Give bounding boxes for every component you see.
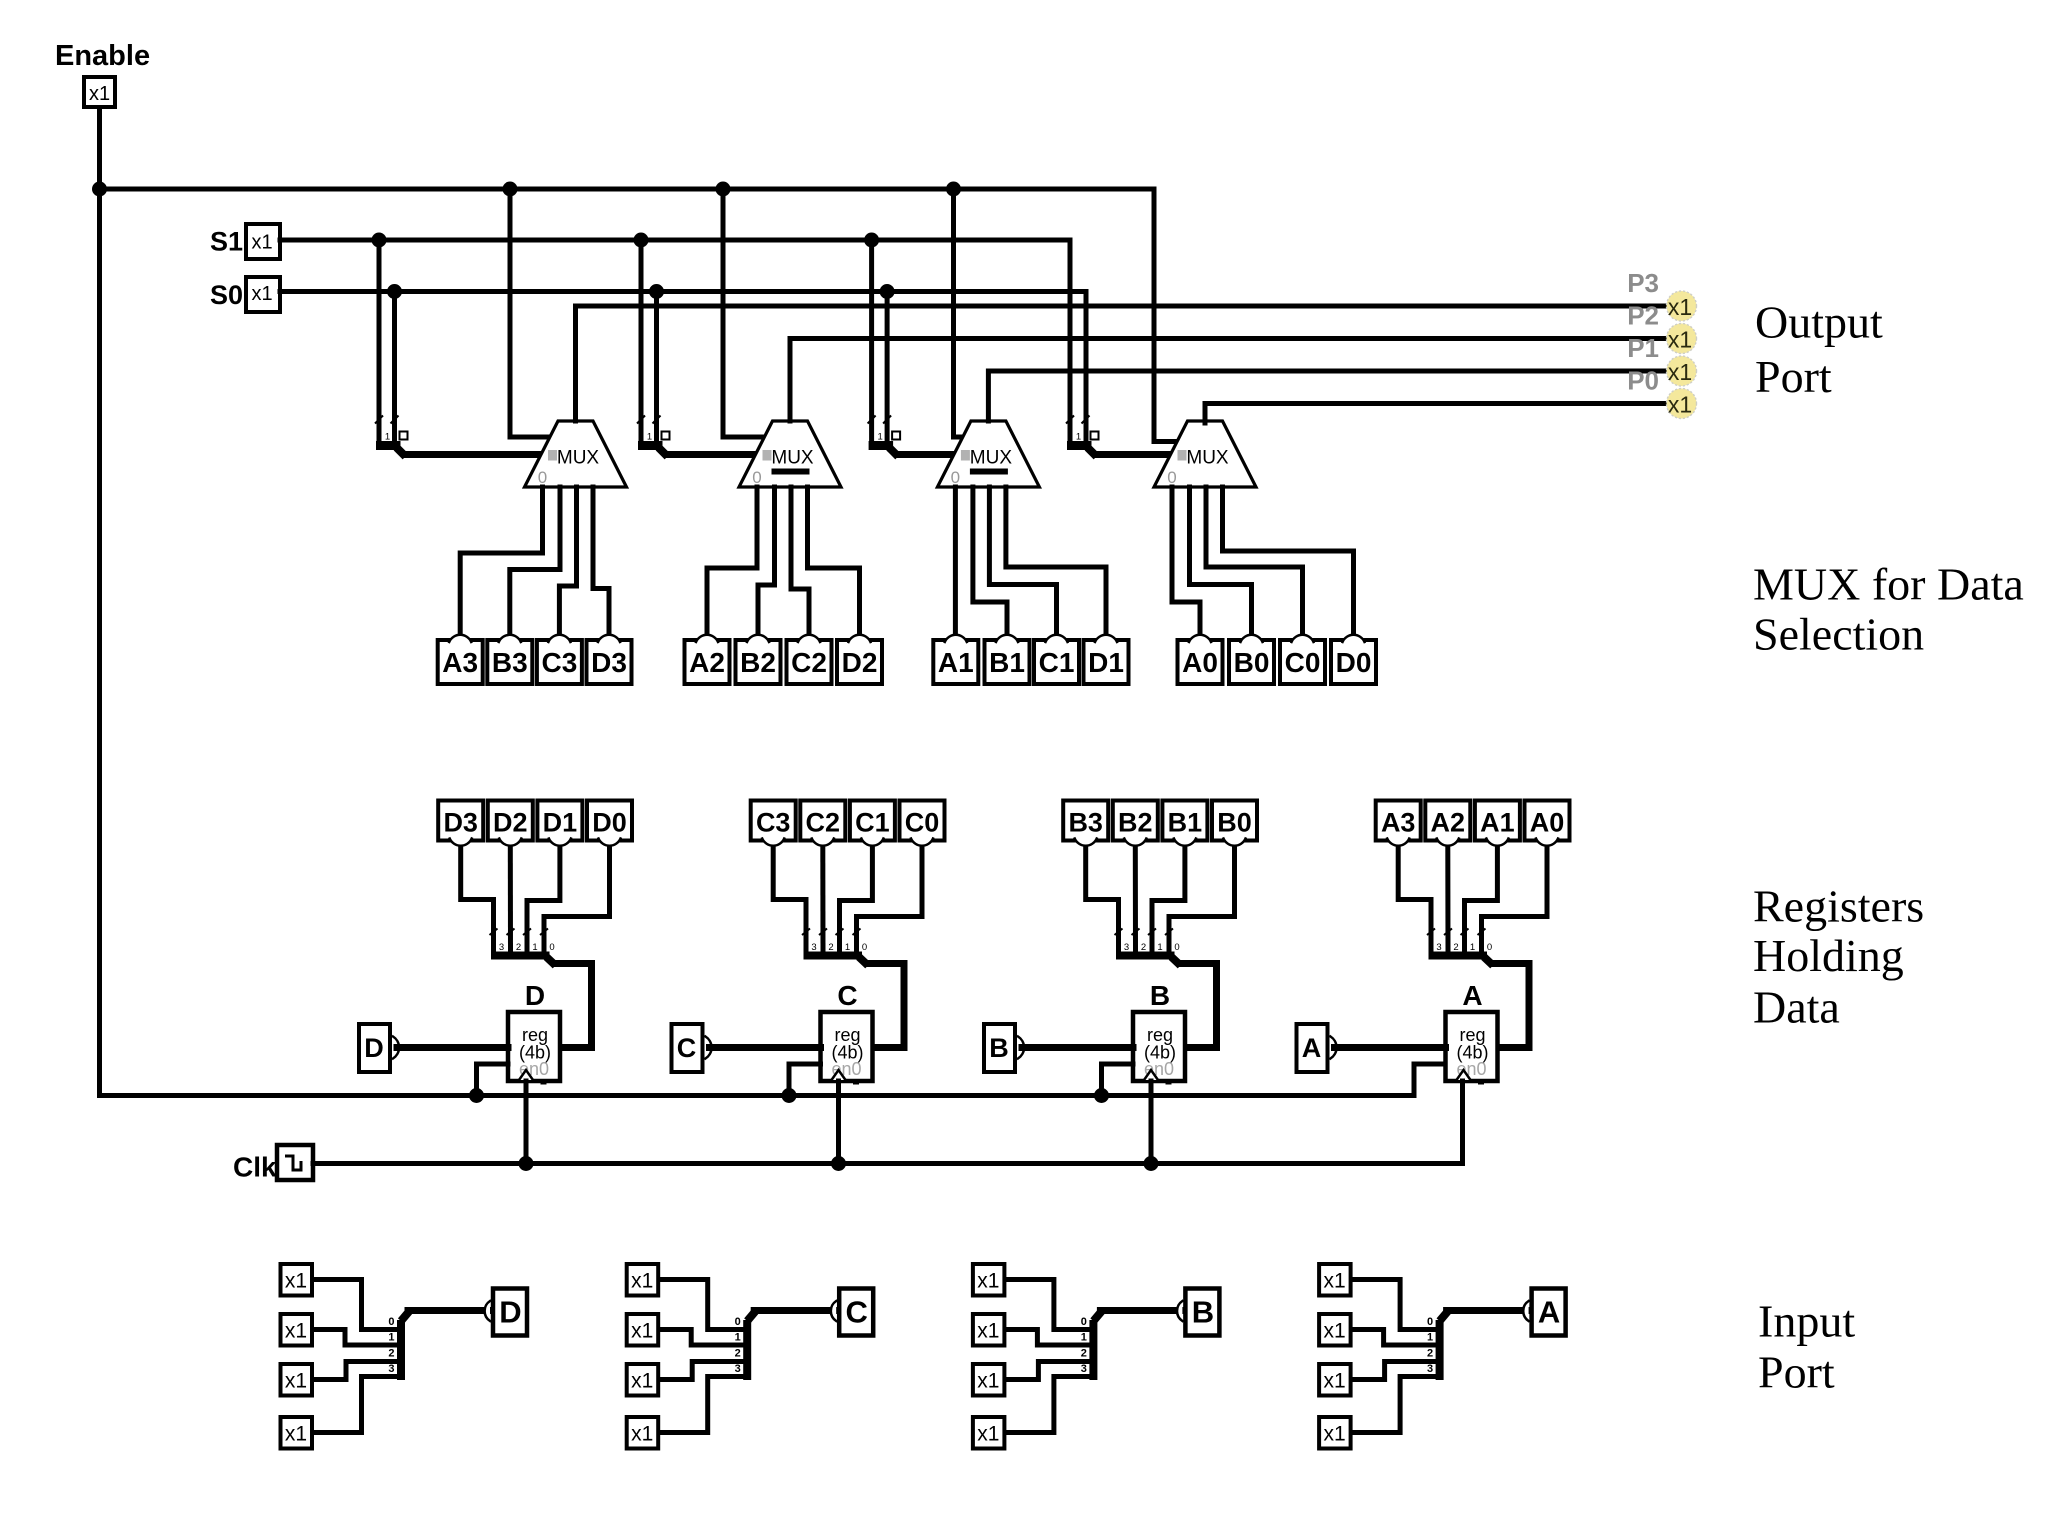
svg-text:x1: x1 [89, 83, 110, 105]
wire MUX U2 input 2 to tunnel C2 [791, 487, 809, 633]
svg-text:C2: C2 [791, 647, 827, 678]
clock pin Clk [277, 1145, 313, 1180]
combiner 4-bit input B [1081, 1312, 1102, 1381]
wire MUX U1 input 2 to tunnel C3 [559, 487, 576, 633]
svg-text:0: 0 [538, 468, 547, 487]
wire D3 to splitter [461, 847, 494, 951]
svg-text:0: 0 [1487, 942, 1492, 953]
svg-text:A: A [1538, 1295, 1560, 1330]
wire MUX U3 input 0 to tunnel A1 [953, 487, 958, 633]
svg-text:MUX: MUX [970, 448, 1013, 469]
junction Enable at left vertical [92, 182, 107, 197]
output port pin P0 (x1) [1667, 389, 1697, 419]
svg-text:D0: D0 [592, 808, 627, 838]
wire MUX U1 output to P3 [576, 306, 1667, 421]
svg-text:0: 0 [1167, 468, 1176, 487]
wire A bit2 to combiner [1352, 1362, 1435, 1380]
svg-text:x1: x1 [1324, 1370, 1346, 1393]
label MUX for Data Selection [1753, 559, 2024, 660]
svg-text:0: 0 [752, 468, 761, 487]
svg-text:A0: A0 [1530, 808, 1565, 838]
wire select bundle to MUX U3 [898, 451, 955, 458]
output tag C (to register) [831, 1289, 873, 1336]
svg-text:x1: x1 [631, 1320, 653, 1343]
svg-text:Port: Port [1755, 351, 1832, 402]
tunnel B2 (register B bit 2) [1113, 801, 1158, 846]
svg-text:x1: x1 [1324, 1270, 1346, 1293]
svg-text:B2: B2 [740, 647, 776, 678]
svg-text:A3: A3 [1381, 808, 1416, 838]
svg-text:A: A [1302, 1033, 1322, 1063]
svg-text:MUX: MUX [557, 448, 600, 469]
wire C bit1 to combiner [660, 1330, 743, 1346]
svg-text:2: 2 [1453, 942, 1458, 953]
wire MUX U3 input 2 to tunnel C1 [989, 487, 1056, 633]
svg-text:1: 1 [647, 432, 652, 443]
svg-text:A1: A1 [938, 647, 974, 678]
svg-text:B0: B0 [1234, 647, 1270, 678]
wire C bit3 to combiner [660, 1377, 743, 1433]
svg-text:x1: x1 [251, 283, 272, 305]
junction clock stub C [831, 1156, 846, 1171]
svg-text:3: 3 [1427, 1363, 1433, 1375]
svg-text:1: 1 [1427, 1332, 1433, 1344]
input pin S0 (x1 box) [246, 277, 280, 312]
svg-text:0: 0 [388, 1316, 394, 1328]
input pin x1 (C bit 2) [627, 1364, 659, 1396]
svg-text:D: D [364, 1033, 384, 1063]
wire C bit0 to combiner [660, 1280, 743, 1330]
splitter 4-bit register B [1115, 929, 1181, 966]
svg-text:C: C [846, 1295, 868, 1330]
label Input Port [1758, 1296, 1855, 1398]
svg-text:x1: x1 [631, 1370, 653, 1393]
wire MUX U4 input 2 to tunnel C0 [1206, 487, 1303, 633]
wire B bit2 to combiner [1006, 1362, 1089, 1380]
svg-text:D3: D3 [591, 647, 627, 678]
svg-text:S0: S0 [210, 280, 243, 310]
junction clock stub D [519, 1156, 534, 1171]
wire MUX U3 input 3 to tunnel D1 [1006, 487, 1106, 633]
wire MUX U2 output to P2 [790, 339, 1666, 422]
wire D bit3 to combiner [314, 1377, 397, 1433]
svg-text:MUX for Data: MUX for Data [1753, 559, 2024, 610]
input pin Clk label [233, 1152, 277, 1183]
wire select bundle to MUX U2 [668, 451, 757, 458]
svg-text:Registers: Registers [1753, 881, 1924, 932]
wire combiner to tag D [408, 1307, 488, 1314]
svg-text:B: B [1192, 1295, 1214, 1330]
input pin x1 (C bit 3) [627, 1417, 659, 1449]
tunnel D1 (register D bit 1) [537, 801, 582, 846]
tunnel C0 (MUX input) [1280, 635, 1325, 684]
tunnel A1 (MUX input) [933, 635, 978, 684]
output tag B (to register) [1177, 1289, 1219, 1336]
splitter select 2-bit U3 [868, 416, 901, 457]
tunnel D3 (register D bit 3) [438, 801, 483, 846]
wire S0 leg to splitter U3 [885, 292, 890, 444]
svg-text:D3: D3 [443, 808, 478, 838]
svg-text:Clk: Clk [233, 1152, 277, 1183]
combiner 4-bit input D [388, 1312, 409, 1381]
output port pin P1 (x1) [1667, 356, 1697, 386]
label Registers Holding Data [1753, 881, 1924, 1033]
tunnel D1 (MUX input) [1084, 635, 1129, 684]
svg-text:C1: C1 [1039, 647, 1075, 678]
svg-text:1: 1 [532, 942, 537, 953]
svg-text:3: 3 [735, 1363, 741, 1375]
wire bundle splitter to reg D [555, 964, 592, 1048]
wire MUX U3 output to P1 [988, 371, 1666, 421]
svg-text:3: 3 [811, 942, 816, 953]
svg-text:B1: B1 [989, 647, 1025, 678]
svg-text:1: 1 [1470, 942, 1475, 953]
input pin x1 (B bit 1) [973, 1314, 1005, 1346]
wire Enable pin to bus [97, 109, 102, 186]
wire S0 leg to splitter U1 [392, 292, 397, 444]
tunnel A3 (register A bit 3) [1376, 801, 1421, 846]
svg-text:x1: x1 [977, 1270, 999, 1293]
junction Enable drop U2 [716, 182, 731, 197]
svg-text:D1: D1 [1088, 647, 1124, 678]
wire clock stub reg C [836, 1081, 841, 1164]
wire S0 line [280, 292, 1086, 444]
svg-text:2: 2 [1081, 1347, 1087, 1359]
wire tag A to reg [1335, 1044, 1446, 1051]
svg-text:P2: P2 [1627, 301, 1659, 331]
wire select bundle to MUX U1 [406, 451, 543, 458]
input tag D (register data in) [359, 1024, 399, 1072]
wire A bit0 to combiner [1352, 1280, 1435, 1330]
input pin x1 (D bit 3) [281, 1417, 313, 1449]
svg-text:C: C [837, 980, 857, 1011]
tunnel D2 (MUX input) [837, 635, 882, 684]
label register C [837, 980, 857, 1011]
combiner 4-bit input C [735, 1312, 756, 1381]
tunnel A3 (MUX input) [438, 635, 483, 684]
wire Enable drop to MUX U3 [954, 189, 964, 437]
svg-text:D2: D2 [493, 808, 528, 838]
svg-text:2: 2 [1141, 942, 1146, 953]
svg-text:3: 3 [1081, 1363, 1087, 1375]
wire D bit2 to combiner [314, 1362, 397, 1380]
wire MUX U1 input 1 to tunnel B3 [510, 487, 560, 633]
wire Enable drop to MUX U2 [723, 189, 765, 437]
input pin Enable (x1 box) [84, 77, 115, 107]
wire clock stub reg D [524, 1081, 529, 1164]
svg-text:Holding: Holding [1753, 930, 1904, 981]
wire D bit0 to combiner [314, 1280, 397, 1330]
wire tag D to reg [397, 1044, 508, 1051]
svg-text:A2: A2 [689, 647, 725, 678]
svg-text:C1: C1 [855, 808, 890, 838]
register B (reg 4b) [1133, 1012, 1185, 1085]
svg-text:2: 2 [828, 942, 833, 953]
register D (reg 4b) [508, 1012, 560, 1085]
junction clock stub B [1144, 1156, 1159, 1171]
svg-text:0: 0 [1174, 942, 1179, 953]
output tag A (to register) [1523, 1289, 1565, 1336]
svg-text:D0: D0 [1336, 647, 1372, 678]
junction Enable drop U1 [503, 182, 518, 197]
label register D [525, 980, 545, 1011]
svg-text:x1: x1 [1324, 1320, 1346, 1343]
tunnel A0 (register A bit 0) [1525, 801, 1570, 846]
wire MUX U2 input 1 to tunnel B2 [758, 487, 775, 633]
label Output Port [1755, 297, 1883, 403]
splitter 4-bit register C [802, 929, 868, 966]
register A (reg 4b) [1446, 1012, 1498, 1085]
svg-text:x1: x1 [285, 1320, 307, 1343]
svg-text:x1: x1 [1668, 392, 1692, 418]
input tag A (register data in) [1297, 1024, 1337, 1072]
multiplexer MUX U1 [525, 421, 627, 487]
svg-text:C0: C0 [1285, 647, 1321, 678]
svg-text:D1: D1 [543, 808, 578, 838]
label register A [1462, 980, 1482, 1011]
input pin x1 (D bit 1) [281, 1314, 313, 1346]
wire S1 line [280, 240, 1070, 443]
svg-text:1: 1 [877, 432, 882, 443]
output port pin P3 (x1) [1667, 291, 1697, 321]
svg-text:x1: x1 [977, 1423, 999, 1446]
wire B3 to splitter [1086, 847, 1119, 951]
wire C bit2 to combiner [660, 1362, 743, 1380]
tunnel B3 (register B bit 3) [1063, 801, 1108, 846]
svg-text:x1: x1 [631, 1423, 653, 1446]
wire combiner to tag A [1447, 1307, 1527, 1314]
svg-text:x1: x1 [1324, 1423, 1346, 1446]
wire MUX U3 input 1 to tunnel B1 [973, 487, 1007, 633]
svg-text:0: 0 [951, 468, 960, 487]
multiplexer MUX U4 [1154, 421, 1256, 487]
input pin x1 (A bit 2) [1319, 1364, 1351, 1396]
wire tag C to reg [710, 1044, 821, 1051]
svg-text:P1: P1 [1627, 333, 1659, 363]
input tag B (register data in) [984, 1024, 1024, 1072]
tunnel C2 (register C bit 2) [800, 801, 845, 846]
svg-text:P0: P0 [1627, 366, 1659, 396]
wire combiner to tag C [754, 1307, 834, 1314]
tunnel C1 (MUX input) [1034, 635, 1079, 684]
junction S0 leg U2 [649, 284, 664, 299]
label register B [1150, 980, 1170, 1011]
output label P2 [1627, 301, 1659, 331]
wire select bundle to MUX U4 [1097, 451, 1172, 458]
wire C1 to splitter [840, 847, 873, 951]
svg-text:Port: Port [1758, 1347, 1835, 1398]
svg-text:B2: B2 [1118, 808, 1153, 838]
tunnel C3 (register C bit 3) [751, 801, 796, 846]
wire MUX U4 input 0 to tunnel A0 [1172, 487, 1200, 633]
wire bundle splitter to reg A [1493, 964, 1530, 1048]
svg-text:1: 1 [1157, 942, 1162, 953]
svg-text:x1: x1 [285, 1370, 307, 1393]
wire B bit0 to combiner [1006, 1280, 1089, 1330]
input tag C (register data in) [672, 1024, 712, 1072]
wire C3 to splitter [773, 847, 806, 951]
wire MUX U4 output to P0 [1205, 404, 1666, 424]
wire S1 leg to splitter U1 [377, 240, 382, 443]
svg-text:1: 1 [845, 942, 850, 953]
junction S0 leg U3 [880, 284, 895, 299]
wire A3 to splitter [1398, 847, 1431, 951]
tunnel D0 (register D bit 0) [587, 801, 632, 846]
multiplexer MUX U3 [937, 421, 1039, 487]
wire combiner to tag B [1100, 1307, 1180, 1314]
svg-text:MUX: MUX [1186, 448, 1229, 469]
tunnel B1 (register B bit 1) [1162, 801, 1207, 846]
input pin x1 (D bit 0) [281, 1264, 313, 1296]
junction S1 leg U1 [372, 233, 387, 248]
wire tag B to reg [1022, 1044, 1133, 1051]
wire MUX U1 input 3 to tunnel D3 [593, 487, 609, 633]
wire A2 to splitter [1445, 847, 1450, 951]
svg-text:1: 1 [1081, 1332, 1087, 1344]
input pin x1 (A bit 3) [1319, 1417, 1351, 1449]
wire MUX U2 input 0 to tunnel A2 [707, 487, 757, 633]
svg-text:1: 1 [735, 1332, 741, 1344]
svg-text:C0: C0 [905, 808, 940, 838]
wire enable stub reg C [789, 1064, 821, 1096]
wire B bit1 to combiner [1006, 1330, 1089, 1346]
svg-text:0: 0 [735, 1316, 741, 1328]
svg-text:3: 3 [1436, 942, 1441, 953]
tunnel B0 (MUX input) [1229, 635, 1274, 684]
svg-text:D: D [499, 1295, 521, 1330]
wire C2 to splitter [820, 847, 825, 951]
junction S0 leg U1 [387, 284, 402, 299]
wire Enable drop to MUX U1 [510, 189, 550, 437]
wire enable stub reg B [1102, 1064, 1134, 1096]
tunnel D2 (register D bit 2) [488, 801, 533, 846]
svg-text:Selection: Selection [1753, 609, 1924, 660]
svg-text:C3: C3 [542, 647, 578, 678]
svg-text:0: 0 [1081, 1316, 1087, 1328]
input pin x1 (A bit 1) [1319, 1314, 1351, 1346]
wire MUX U1 input 0 to tunnel A3 [460, 487, 542, 633]
svg-text:0: 0 [862, 942, 867, 953]
tunnel A2 (MUX input) [685, 635, 730, 684]
tunnel C0 (register C bit 0) [900, 801, 945, 846]
svg-text:x1: x1 [1668, 359, 1692, 385]
output label P1 [1627, 333, 1659, 363]
wire A1 to splitter [1465, 847, 1498, 951]
wire B1 to splitter [1152, 847, 1185, 951]
wire B0 to splitter [1169, 847, 1235, 951]
wire bundle splitter to reg B [1180, 964, 1217, 1048]
svg-text:1: 1 [385, 432, 390, 443]
svg-text:B: B [989, 1033, 1009, 1063]
tunnel C2 (MUX input) [787, 635, 832, 684]
wire B bit3 to combiner [1006, 1377, 1089, 1433]
svg-text:x1: x1 [631, 1270, 653, 1293]
wire MUX U4 input 3 to tunnel D0 [1223, 487, 1354, 633]
svg-text:3: 3 [388, 1363, 394, 1375]
svg-text:P3: P3 [1627, 268, 1659, 298]
tunnel B3 (MUX input) [487, 635, 532, 684]
wire MUX U2 input 3 to tunnel D2 [808, 487, 860, 633]
wire S1 leg to splitter U2 [639, 240, 644, 443]
svg-text:2: 2 [516, 942, 521, 953]
multiplexer MUX U2 [739, 421, 841, 487]
svg-text:x1: x1 [977, 1320, 999, 1343]
tunnel C1 (register C bit 1) [850, 801, 895, 846]
svg-text:B3: B3 [1068, 808, 1103, 838]
tunnel D0 (MUX input) [1331, 635, 1376, 684]
wire D2 to splitter [508, 847, 513, 951]
tunnel B2 (MUX input) [736, 635, 781, 684]
svg-text:3: 3 [1124, 942, 1129, 953]
svg-text:0: 0 [1427, 1316, 1433, 1328]
splitter select 2-bit U2 [637, 416, 670, 457]
svg-text:2: 2 [388, 1347, 394, 1359]
output label P3 [1627, 268, 1659, 298]
wire enable stub reg D [477, 1064, 509, 1096]
svg-text:x1: x1 [251, 232, 272, 254]
svg-text:A1: A1 [1480, 808, 1515, 838]
junction S1 leg U2 [634, 233, 649, 248]
splitter select 2-bit U1 [375, 416, 408, 457]
svg-text:2: 2 [1427, 1347, 1433, 1359]
svg-text:Input: Input [1758, 1296, 1855, 1347]
splitter 4-bit register D [490, 929, 556, 966]
svg-text:C: C [677, 1033, 697, 1063]
wire A bit1 to combiner [1352, 1330, 1435, 1346]
svg-text:MUX: MUX [771, 448, 814, 469]
wire clock stub reg A [1460, 1081, 1465, 1164]
tunnel B0 (register B bit 0) [1212, 801, 1257, 846]
wire MUX U4 input 1 to tunnel B0 [1190, 487, 1252, 633]
svg-text:B0: B0 [1217, 808, 1252, 838]
input pin x1 (C bit 1) [627, 1314, 659, 1346]
input pin S1 (x1 box) [246, 224, 280, 259]
wire Enable left vertical [100, 189, 1415, 1096]
junction enable stub C [782, 1088, 797, 1103]
svg-text:3: 3 [499, 942, 504, 953]
svg-text:A: A [1462, 980, 1482, 1011]
junction enable stub B [1094, 1088, 1109, 1103]
svg-text:2: 2 [735, 1347, 741, 1359]
svg-text:B3: B3 [492, 647, 528, 678]
tunnel D3 (MUX input) [587, 635, 632, 684]
junction Enable drop U3 [946, 182, 961, 197]
input pin Enable label [55, 40, 150, 72]
junction S1 leg U3 [864, 233, 879, 248]
wire clock stub reg B [1149, 1081, 1154, 1164]
wire enable stub reg A [1414, 1064, 1444, 1096]
junction enable stub D [469, 1088, 484, 1103]
svg-text:D2: D2 [842, 647, 878, 678]
wire Clk rail [313, 1161, 1463, 1166]
svg-text:A3: A3 [442, 647, 478, 678]
input pin S1 label [210, 227, 243, 257]
input pin x1 (B bit 0) [973, 1264, 1005, 1296]
wire D1 to splitter [527, 847, 560, 951]
input pin x1 (B bit 2) [973, 1364, 1005, 1396]
svg-text:x1: x1 [1668, 294, 1692, 320]
svg-text:D: D [525, 980, 545, 1011]
combiner 4-bit input A [1427, 1312, 1448, 1381]
tunnel C3 (MUX input) [537, 635, 582, 684]
svg-text:B1: B1 [1168, 808, 1203, 838]
svg-text:0: 0 [549, 942, 554, 953]
input pin x1 (D bit 2) [281, 1364, 313, 1396]
svg-text:1: 1 [388, 1332, 394, 1344]
input pin S0 label [210, 280, 243, 310]
input pin x1 (A bit 0) [1319, 1264, 1351, 1296]
splitter select 2-bit U4 [1066, 416, 1099, 457]
